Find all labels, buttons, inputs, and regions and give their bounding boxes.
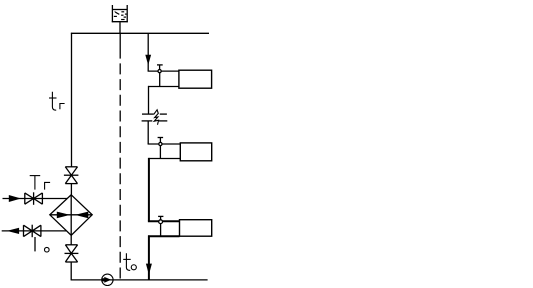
- return drop radiator2 to radiator3: [148, 158, 150, 221]
- return flow arrow: [7, 228, 19, 234]
- label tg: [49, 92, 65, 111]
- radiator 1 drop leg: [159, 73, 161, 87]
- valve on Tg pipe: [25, 192, 43, 205]
- pipe elevator to bottom valve: [70, 235, 72, 245]
- radiator 3 top pipe: [148, 220, 180, 222]
- radiator 2 valve: [158, 138, 164, 146]
- radiator 1 top pipe: [148, 70, 179, 72]
- radiator 2 drop leg: [159, 146, 161, 159]
- return main: [71, 279, 208, 281]
- supply riser to radiators: [147, 33, 149, 71]
- radiator 1 body: [179, 70, 212, 88]
- left supply riser: [71, 33, 73, 167]
- supply flow arrow: [9, 195, 21, 202]
- radiator 3 valve: [158, 216, 163, 223]
- elevator flow arrows: [57, 212, 70, 219]
- drop to return main: [70, 262, 72, 280]
- elevator mixing unit: [50, 195, 92, 236]
- tank stem: [119, 22, 121, 33]
- external supply pipe Tg: [3, 198, 68, 200]
- valve on To pipe: [24, 225, 41, 238]
- return flow arrow down: [146, 264, 152, 275]
- label to: [123, 253, 136, 270]
- bottom valve: [65, 245, 79, 262]
- pipe valve to elevator: [70, 184, 72, 195]
- valve on left riser: [64, 167, 79, 184]
- flow arrow down: [145, 55, 151, 66]
- dashed riser centerline: [119, 33, 121, 58]
- pipe break symbol: [142, 110, 168, 125]
- tank water marks: [114, 12, 127, 20]
- riser segment break to radiator 2: [147, 121, 149, 144]
- radiator 2 body: [180, 143, 211, 161]
- riser segment radiator1 to break: [148, 86, 150, 114]
- label o: [45, 247, 50, 252]
- radiator 2 bottom pipe: [148, 158, 180, 160]
- expansion tank: [112, 5, 128, 22]
- radiator 3 drop leg: [160, 224, 162, 237]
- return drop to main: [148, 235, 150, 280]
- radiator 3 bottom pipe: [148, 235, 180, 237]
- valve stem down: [34, 237, 36, 251]
- radiator 2 top pipe: [148, 143, 181, 145]
- pump: [102, 274, 113, 285]
- external return pipe To: [2, 230, 67, 232]
- radiator 3 body: [180, 220, 212, 237]
- top supply main: [71, 32, 209, 34]
- radiator 1 bottom pipe: [148, 86, 179, 88]
- radiator 1 valve: [157, 65, 163, 73]
- label Tg: [30, 176, 50, 190]
